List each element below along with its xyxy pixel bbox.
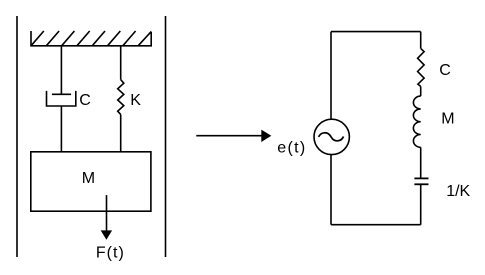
damper C piston plate	[52, 93, 71, 95]
ceiling hatch 5	[92, 31, 105, 46]
svg-text:e(t): e(t)	[277, 140, 306, 157]
damper C cylinder cup	[47, 91, 76, 106]
analogy arrow line	[196, 135, 263, 137]
right boundary wall line	[165, 16, 167, 257]
circuit loop top wire	[331, 31, 421, 33]
analogy arrowhead	[261, 130, 271, 142]
ceiling hatch 1	[31, 31, 44, 46]
svg-text:F(t): F(t)	[96, 245, 125, 262]
resistor C zigzag	[418, 48, 425, 86]
wire capacitor to bottom	[420, 184, 422, 224]
source sine symbol	[319, 133, 344, 141]
spring K wire lower	[120, 114, 122, 151]
circuit loop left wire upper	[330, 32, 332, 120]
ceiling hatch 8	[138, 32, 151, 46]
capacitor 1/K top plate	[414, 177, 428, 179]
spring K wire upper	[120, 46, 122, 80]
ceiling hatch 2	[46, 31, 59, 46]
ceiling hatch 7	[123, 31, 136, 46]
force F(t) arrowhead	[101, 230, 112, 239]
fixed ceiling baseline	[31, 31, 151, 46]
wire inductor to capacitor	[420, 147, 422, 178]
spring K zigzag	[118, 80, 124, 115]
svg-text:C: C	[79, 92, 91, 109]
wire between resistor and inductor	[420, 86, 422, 96]
mass M block	[31, 152, 151, 211]
svg-text:K: K	[130, 92, 141, 109]
ceiling hatch 4	[77, 31, 90, 46]
circuit loop left wire lower	[330, 155, 332, 225]
ceiling hatch 6	[108, 31, 121, 46]
svg-text:1/K: 1/K	[446, 183, 470, 200]
force F(t) arrow stem	[106, 195, 108, 231]
damper C rod upper	[60, 46, 62, 95]
capacitor 1/K bottom plate	[414, 183, 428, 185]
damper C rod lower	[60, 106, 62, 152]
right branch wire above resistor	[420, 32, 422, 49]
inductor M coils	[413, 96, 420, 147]
left boundary wall line	[16, 16, 18, 257]
source e(t) circle	[314, 119, 349, 154]
svg-text:M: M	[441, 111, 454, 128]
svg-text:C: C	[439, 62, 451, 79]
circuit loop bottom wire	[331, 224, 421, 226]
ceiling hatch 3	[62, 31, 75, 46]
svg-text:M: M	[82, 170, 95, 187]
